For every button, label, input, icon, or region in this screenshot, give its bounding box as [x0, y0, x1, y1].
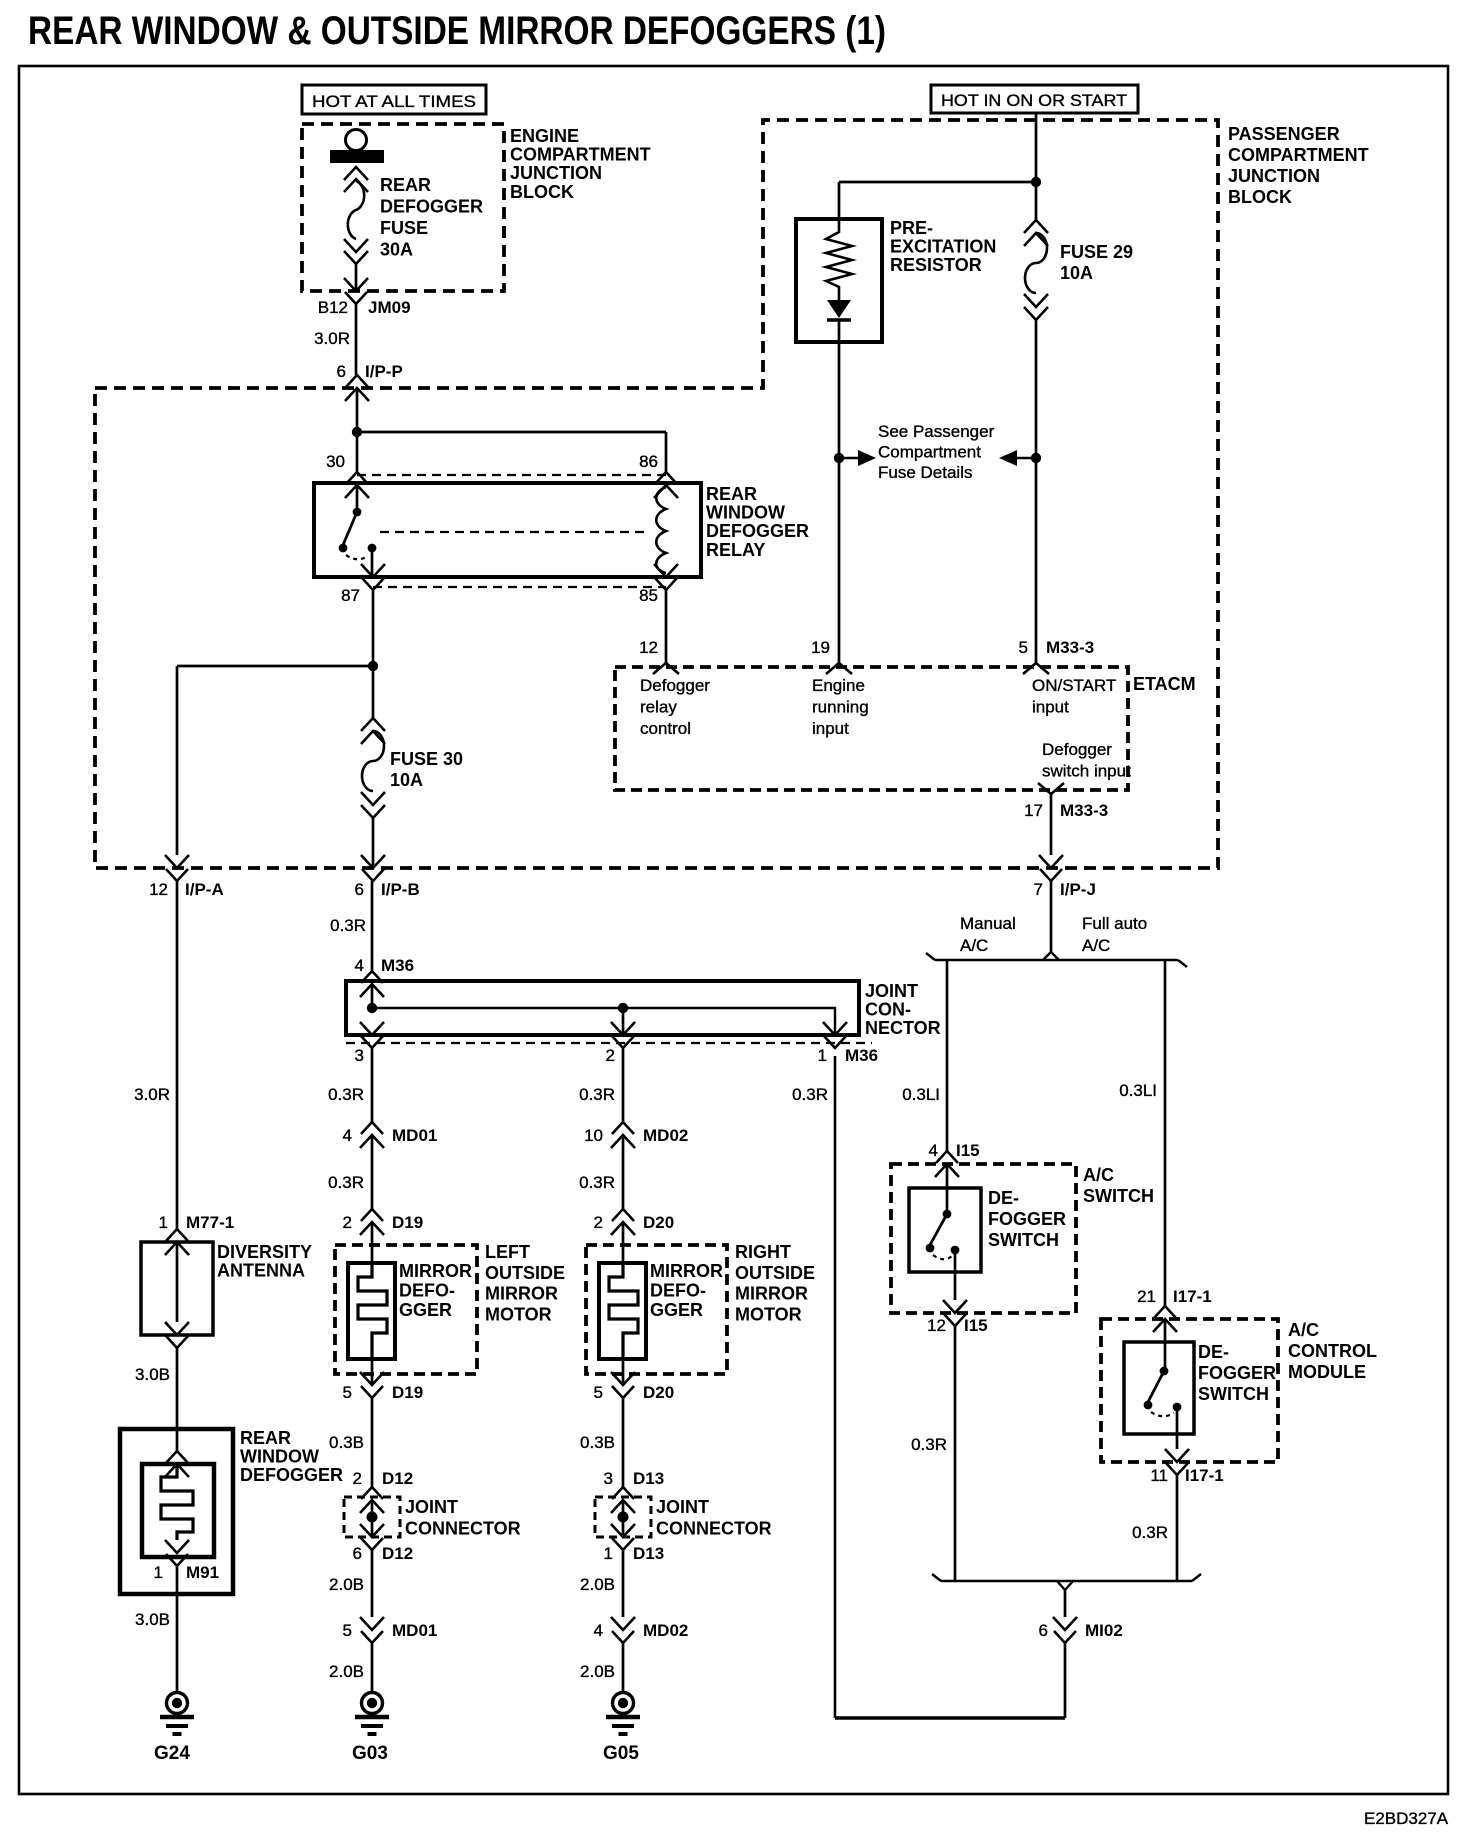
switch blade [1148, 1371, 1164, 1402]
rear window defogger outer box [120, 1429, 233, 1594]
switch open contact [926, 1244, 935, 1253]
A/C control module (dashed) [1101, 1319, 1278, 1462]
joint connector D12 output arrow [360, 1524, 384, 1550]
wire 0.3R [622, 1048, 625, 1122]
svg-text:I17-1: I17-1 [1173, 1287, 1212, 1306]
svg-text:19: 19 [811, 638, 830, 657]
svg-text:6: 6 [1039, 1621, 1048, 1640]
connector MI02 pin 6 [1053, 1617, 1077, 1643]
connector D20 pin 2 [611, 1209, 635, 1235]
svg-text:MD01: MD01 [392, 1126, 437, 1145]
defogger element output arrow [165, 1540, 189, 1566]
relay coil [656, 487, 666, 573]
left mirror heating element [358, 1263, 387, 1359]
svg-text:6: 6 [337, 362, 346, 381]
wire switch output [1176, 1407, 1179, 1449]
svg-text:12: 12 [927, 1316, 946, 1335]
svg-text:I/P-P: I/P-P [365, 362, 403, 381]
svg-text:12: 12 [149, 880, 168, 899]
svg-text:I/P-J: I/P-J [1060, 880, 1096, 899]
right mirror heating element [609, 1263, 638, 1359]
joint connector D13 input arrow [611, 1487, 635, 1513]
relay pin 85 arrow [654, 564, 678, 590]
relay switch open contact [339, 544, 348, 553]
joint connector D12 (dashed) [344, 1497, 400, 1537]
svg-text:ETACM: ETACM [1133, 674, 1196, 694]
A/C control module pin 21 arrow [1153, 1306, 1177, 1332]
wire pin 87 down [372, 590, 375, 718]
svg-text:7: 7 [1034, 880, 1043, 899]
svg-text:MI02: MI02 [1085, 1621, 1123, 1640]
svg-text:0.3B: 0.3B [329, 1433, 364, 1452]
svg-text:2: 2 [343, 1213, 352, 1232]
bus junction pin 2 [618, 1003, 628, 1013]
svg-text:4: 4 [929, 1141, 938, 1160]
wire resistor to ETACM pin 19 [838, 342, 841, 663]
relay switch common [353, 508, 362, 517]
svg-text:6: 6 [353, 1544, 362, 1563]
svg-text:0.3LI: 0.3LI [1119, 1081, 1157, 1100]
wire 3.0R to antenna [176, 881, 179, 1229]
wire 0.3R to merge [954, 1326, 957, 1581]
svg-text:4: 4 [355, 956, 364, 975]
wire I/P-P to relay 30 [356, 388, 359, 472]
wire switch output [954, 1250, 957, 1300]
svg-text:2: 2 [594, 1213, 603, 1232]
wire into mirror defogger [622, 1222, 625, 1263]
connector D20 pin 5 [611, 1372, 635, 1398]
svg-text:E2BD327A: E2BD327A [1364, 1809, 1449, 1828]
ground G05 [606, 1693, 640, 1735]
wire I/P-B to M36 [371, 881, 374, 971]
svg-text:2.0B: 2.0B [329, 1575, 364, 1594]
svg-text:1: 1 [818, 1046, 827, 1065]
wire pin 17 to I/P-J [1050, 794, 1053, 855]
wire 0.3B [622, 1398, 625, 1487]
svg-text:0.3R: 0.3R [330, 916, 366, 935]
svg-text:D19: D19 [392, 1383, 423, 1402]
svg-text:0.3R: 0.3R [328, 1173, 364, 1192]
svg-text:D12: D12 [382, 1544, 413, 1563]
svg-text:10: 10 [584, 1126, 603, 1145]
svg-text:MD01: MD01 [392, 1621, 437, 1640]
wire fuse30 to I/P-B [372, 818, 375, 868]
svg-text:HOT IN ON OR START: HOT IN ON OR START [941, 91, 1127, 110]
svg-text:M77-1: M77-1 [186, 1213, 234, 1232]
svg-text:MD02: MD02 [643, 1621, 688, 1640]
engine compartment junction block (dashed) [302, 124, 504, 291]
wire into switch [1164, 1319, 1167, 1368]
svg-text:I/P-B: I/P-B [381, 880, 420, 899]
wire 3.0B to rear defogger [176, 1348, 179, 1429]
wire into resistor box [838, 182, 841, 222]
svg-text:0.3B: 0.3B [580, 1433, 615, 1452]
svg-text:MD02: MD02 [643, 1126, 688, 1145]
junction to I/P-A branch [368, 661, 378, 671]
wire bus to pin 2 [622, 1008, 625, 1035]
wire 0.3LI full-auto branch [1164, 960, 1167, 1306]
svg-text:1: 1 [604, 1544, 613, 1563]
antenna output arrow [165, 1322, 189, 1348]
diode [827, 300, 851, 318]
left mirror defogger box [348, 1263, 395, 1359]
joint connector pin 4 arrow [360, 971, 384, 997]
joint connector D13 output arrow [611, 1524, 635, 1550]
svg-text:3.0R: 3.0R [134, 1085, 170, 1104]
svg-text:D19: D19 [392, 1213, 423, 1232]
wire bottom return [835, 1716, 1065, 1720]
joint connector dashed line [346, 1042, 872, 1044]
svg-text:D13: D13 [633, 1469, 664, 1488]
wire 2.0B [371, 1550, 374, 1617]
wire 0.3B [371, 1398, 374, 1487]
switch output contact [1173, 1403, 1182, 1412]
arrow to fuse details (left-pointing) [1017, 457, 1036, 459]
wire 2.0B [622, 1550, 625, 1617]
ETACM pin 5 [1023, 663, 1049, 674]
switch open contact [1144, 1401, 1153, 1410]
svg-text:17: 17 [1024, 801, 1043, 820]
wire down to I/P-A [176, 666, 179, 855]
svg-text:85: 85 [639, 586, 658, 605]
connector MD02 pin 4 [611, 1617, 635, 1643]
ground G03 [355, 1693, 389, 1735]
wire merge down [1064, 1590, 1067, 1617]
switch common [1160, 1367, 1169, 1376]
relay REAR WINDOW DEFOGGER RELAY [314, 483, 701, 577]
connector I/P-J crossing [1039, 855, 1063, 881]
fuse FUSE 30 10A [361, 718, 385, 818]
wire I/P-J down [1050, 881, 1053, 952]
ETACM pin 12 [653, 663, 679, 674]
svg-text:2: 2 [606, 1046, 615, 1065]
wire into bus [371, 984, 374, 1008]
bus merge symbol [941, 1580, 1192, 1582]
svg-text:HOT AT ALL TIMES: HOT AT ALL TIMES [312, 92, 476, 111]
ETACM pin 17 [1038, 783, 1064, 794]
wire MI02 to return [1064, 1643, 1067, 1718]
relay pin 86 arrow [654, 472, 678, 498]
svg-text:M36: M36 [845, 1046, 878, 1065]
wire into defogger [176, 1429, 179, 1451]
passenger compartment junction block region (dashed) [95, 120, 1218, 868]
diversity antenna box [141, 1242, 213, 1335]
rear window defogger inner box [142, 1464, 214, 1557]
svg-text:1: 1 [159, 1213, 168, 1232]
svg-text:G05: G05 [603, 1743, 639, 1764]
svg-text:D12: D12 [382, 1469, 413, 1488]
junction node feed [352, 427, 362, 437]
relay connector dashed line (87-85) [373, 586, 666, 588]
wire relay 85 to ETACM pin 12 [665, 590, 668, 663]
svg-text:I15: I15 [964, 1316, 988, 1335]
svg-text:86: 86 [639, 452, 658, 471]
wire out of mirror defogger [622, 1359, 625, 1385]
wire through joint connector [371, 1500, 374, 1537]
svg-text:3.0B: 3.0B [135, 1610, 170, 1629]
left outside mirror motor (dashed) [335, 1245, 477, 1374]
switch travel arc [1151, 1412, 1174, 1416]
svg-text:REAR WINDOW & OUTSIDE MIRROR D: REAR WINDOW & OUTSIDE MIRROR DEFOGGERS (… [28, 9, 886, 53]
svg-text:0.3LI: 0.3LI [902, 1085, 940, 1104]
svg-text:3: 3 [355, 1046, 364, 1065]
joint connector D12 input arrow [360, 1487, 384, 1513]
wire into switch [946, 1164, 949, 1211]
svg-text:D20: D20 [643, 1383, 674, 1402]
wire 0.3R [371, 1135, 374, 1209]
wire 3.0B to ground [176, 1566, 179, 1692]
svg-text:4: 4 [594, 1621, 603, 1640]
antenna pin 1 arrow [165, 1229, 189, 1255]
joint connector D12 junction [367, 1512, 378, 1523]
svg-text:5: 5 [1019, 638, 1028, 657]
wire fuse29 to ETACM pin 5 [1035, 320, 1038, 663]
wire from HOT IN ON OR START [1035, 113, 1038, 220]
svg-text:0.3R: 0.3R [579, 1173, 615, 1192]
switch common [943, 1210, 952, 1219]
wire 3.0R [355, 304, 358, 375]
svg-text:DIVERSITYANTENNA: DIVERSITYANTENNA [217, 1242, 312, 1281]
svg-text:2.0B: 2.0B [580, 1662, 615, 1681]
svg-text:M33-3: M33-3 [1046, 638, 1094, 657]
svg-text:B12: B12 [318, 298, 348, 317]
connector I/P-P crossing [345, 375, 369, 401]
A/C switch (dashed) [891, 1164, 1076, 1313]
joint connector M36 box [346, 981, 859, 1035]
svg-text:0.3R: 0.3R [328, 1085, 364, 1104]
wire 0.3R [622, 1135, 625, 1209]
wire 2.0B to ground [622, 1643, 625, 1692]
ETACM module (dashed) [615, 667, 1128, 790]
svg-text:0.3R: 0.3R [579, 1085, 615, 1104]
wire into mirror defogger [371, 1222, 374, 1263]
svg-text:0.3R: 0.3R [911, 1435, 947, 1454]
relay switch blade [343, 512, 357, 545]
switch travel arc [933, 1255, 952, 1259]
pre-excitation resistor box [796, 219, 882, 342]
relay switch output contact [368, 544, 377, 553]
wire 2.0B to ground [371, 1643, 374, 1692]
relay switch feed [356, 485, 359, 510]
ETACM pin 19 [826, 663, 852, 674]
A/C switch pin 4 arrow [935, 1151, 959, 1177]
connector MD01 pin 4 [360, 1122, 384, 1148]
svg-text:JM09: JM09 [368, 298, 411, 317]
wire branch to resistor [839, 181, 1036, 184]
svg-text:I17-1: I17-1 [1185, 1466, 1224, 1485]
switch blade [930, 1214, 947, 1245]
svg-text:0.3R: 0.3R [1132, 1523, 1168, 1542]
svg-text:5: 5 [343, 1621, 352, 1640]
svg-text:11: 11 [1150, 1466, 1168, 1485]
joint connector bus [372, 1008, 835, 1035]
relay pin 87 arrow [361, 564, 385, 590]
joint connector D13 (dashed) [595, 1497, 651, 1537]
joint connector D13 junction [618, 1512, 629, 1523]
svg-text:M33-3: M33-3 [1060, 801, 1108, 820]
defogger switch box (manual) [909, 1188, 981, 1272]
svg-text:G24: G24 [154, 1743, 190, 1764]
relay pin 30 arrow [345, 472, 369, 498]
wire out of mirror defogger [371, 1359, 374, 1385]
bus split symbol [1043, 952, 1059, 960]
svg-text:0.3R: 0.3R [792, 1085, 828, 1104]
defogger element input arrow [165, 1451, 189, 1477]
wire through antenna [176, 1242, 179, 1322]
svg-text:5: 5 [343, 1383, 352, 1402]
junction see-details right [1031, 453, 1041, 463]
defogger switch box (full auto) [1124, 1342, 1194, 1434]
A/C control module pin 11 arrow [1165, 1449, 1189, 1475]
svg-text:87: 87 [341, 586, 360, 605]
switch output contact [951, 1246, 960, 1255]
wire contact to pin 87 [371, 548, 374, 577]
connector D19 pin 5 [360, 1372, 384, 1398]
defogger heating element [161, 1464, 193, 1540]
wire 0.3R [371, 1048, 374, 1122]
wire 0.3LI manual branch [946, 960, 949, 1151]
ground G24 [160, 1693, 194, 1735]
junction see-details left [834, 453, 844, 463]
wire fuse to JM09 [355, 264, 358, 291]
svg-text:D13: D13 [633, 1544, 664, 1563]
svg-text:G03: G03 [352, 1743, 388, 1764]
fuse REAR DEFOGGER FUSE 30A [344, 167, 368, 264]
svg-text:M91: M91 [186, 1563, 219, 1582]
svg-text:1: 1 [154, 1563, 163, 1582]
connector MD01 pin 5 [360, 1617, 384, 1643]
joint connector pin 1 arrow [823, 1022, 847, 1048]
wire 0.3R to merge [1176, 1475, 1179, 1581]
svg-text:4: 4 [343, 1126, 352, 1145]
svg-text:3.0B: 3.0B [135, 1365, 170, 1384]
svg-text:30: 30 [326, 452, 345, 471]
connector I/P-B crossing [361, 855, 385, 881]
junction to resistor branch [1031, 177, 1041, 187]
wire 0.3R from M36 pin 1 [834, 1056, 837, 1718]
svg-text:6: 6 [355, 880, 364, 899]
svg-text:12: 12 [639, 638, 658, 657]
svg-text:2.0B: 2.0B [580, 1575, 615, 1594]
svg-text:M36: M36 [381, 956, 414, 975]
relay internal dashed divider [380, 531, 650, 533]
wire through joint connector [622, 1500, 625, 1537]
battery feed symbol [346, 130, 367, 151]
svg-text:2: 2 [353, 1469, 362, 1488]
svg-text:D20: D20 [643, 1213, 674, 1232]
right outside mirror motor (dashed) [586, 1245, 727, 1374]
wire diode to box bottom [838, 320, 841, 342]
wire down to relay 86 [665, 432, 668, 472]
A/C switch pin 12 arrow [943, 1300, 967, 1326]
wire branch to relay 86 [357, 431, 666, 434]
connector MD02 pin 10 [611, 1122, 635, 1148]
arrow to fuse details (right-pointing) [839, 457, 858, 459]
relay connector dashed line (30-86) [357, 474, 666, 476]
connector I/P-A crossing [165, 855, 189, 881]
svg-text:3: 3 [604, 1469, 613, 1488]
svg-text:5: 5 [594, 1383, 603, 1402]
joint connector pin 3 arrow [360, 1022, 384, 1048]
svg-text:3.0R: 3.0R [314, 329, 350, 348]
connector JM09 crossing [344, 278, 368, 304]
svg-text:I15: I15 [956, 1141, 980, 1160]
svg-text:2.0B: 2.0B [329, 1662, 364, 1681]
bus junction pin 3 [367, 1003, 377, 1013]
joint connector pin 2 arrow [611, 1022, 635, 1048]
right mirror defogger box [599, 1263, 646, 1359]
wire branch left [177, 665, 373, 668]
resistor element [826, 222, 852, 300]
label box HOT AT ALL TIMES [302, 85, 486, 114]
svg-text:21: 21 [1137, 1287, 1156, 1306]
svg-text:I/P-A: I/P-A [185, 880, 224, 899]
connector D19 pin 2 [360, 1209, 384, 1235]
label box HOT IN ON OR START [931, 85, 1138, 113]
fuse FUSE 29 10A [1024, 220, 1048, 320]
relay switch travel arc [346, 555, 368, 559]
